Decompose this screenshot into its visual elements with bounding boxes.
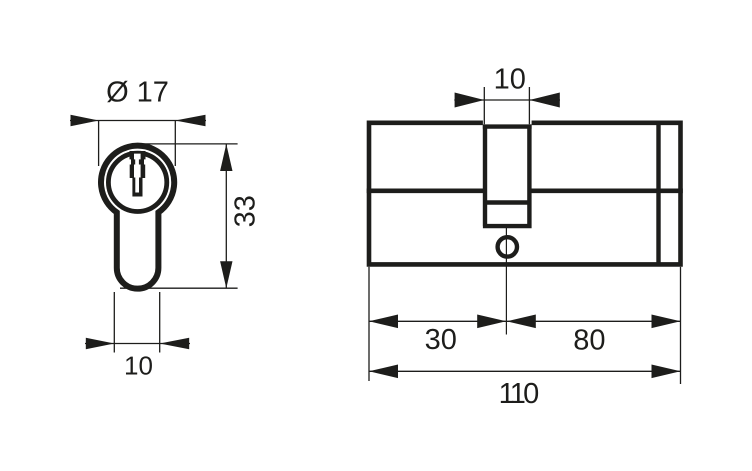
arrow 33 bottom: [220, 261, 232, 288]
arrow 80 left: [507, 315, 536, 329]
extension line 10 left-view left: [113, 292, 115, 353]
svg-text:110: 110: [499, 378, 539, 410]
screw hole: [498, 237, 517, 256]
dimension line 10 left-view: [85, 343, 190, 345]
extension line D17 left: [98, 121, 100, 167]
arrow 110 right: [652, 365, 681, 379]
cam slot: [483, 127, 532, 227]
extension line right end: [680, 267, 682, 384]
extension line 10 top right: [528, 87, 530, 124]
arrow 33 top: [220, 144, 232, 171]
cylinder body outline (right view): [369, 123, 681, 265]
extension line 33 top: [135, 143, 238, 145]
svg-text:33: 33: [230, 195, 262, 227]
arrow 30 left: [369, 315, 398, 329]
end cap line: [656, 123, 660, 265]
body mid line right: [529, 189, 682, 194]
arrow 10 top left: [455, 93, 485, 108]
svg-text:30: 30: [425, 324, 457, 356]
center line: [505, 228, 507, 335]
extension line 10 top left: [483, 87, 485, 124]
arrow 10 left-view left: [86, 338, 115, 349]
svg-text:80: 80: [573, 324, 605, 356]
dimension line D17: [70, 120, 206, 122]
plug ring (inner circle): [108, 153, 166, 211]
arrow D17 right: [175, 115, 205, 126]
extension line left end: [368, 267, 370, 381]
extension line 33 bottom: [120, 287, 238, 289]
arrow D17 left: [71, 115, 99, 126]
extension line 10 left-view right: [159, 292, 161, 353]
arrow 30 right: [477, 315, 506, 329]
extension line D17 right: [174, 121, 176, 167]
arrow 110 left: [369, 365, 398, 379]
keyhole silhouette: [130, 151, 146, 197]
dimension line 30-80: [369, 320, 681, 322]
body mid line left: [367, 189, 485, 194]
dimension line 110: [369, 370, 681, 372]
dimension line 10 top: [454, 99, 560, 101]
svg-text:10: 10: [494, 64, 526, 96]
arrow 10 top right: [529, 93, 559, 108]
arrow 10 left-view right: [160, 338, 190, 349]
svg-text:Ø 17: Ø 17: [106, 77, 169, 109]
svg-text:10: 10: [124, 351, 153, 381]
dimension line 33: [225, 144, 227, 288]
cylinder front profile (left view body outline): [101, 146, 174, 289]
arrow 80 right: [652, 315, 681, 329]
keyhole slot (white): [134, 154, 141, 193]
